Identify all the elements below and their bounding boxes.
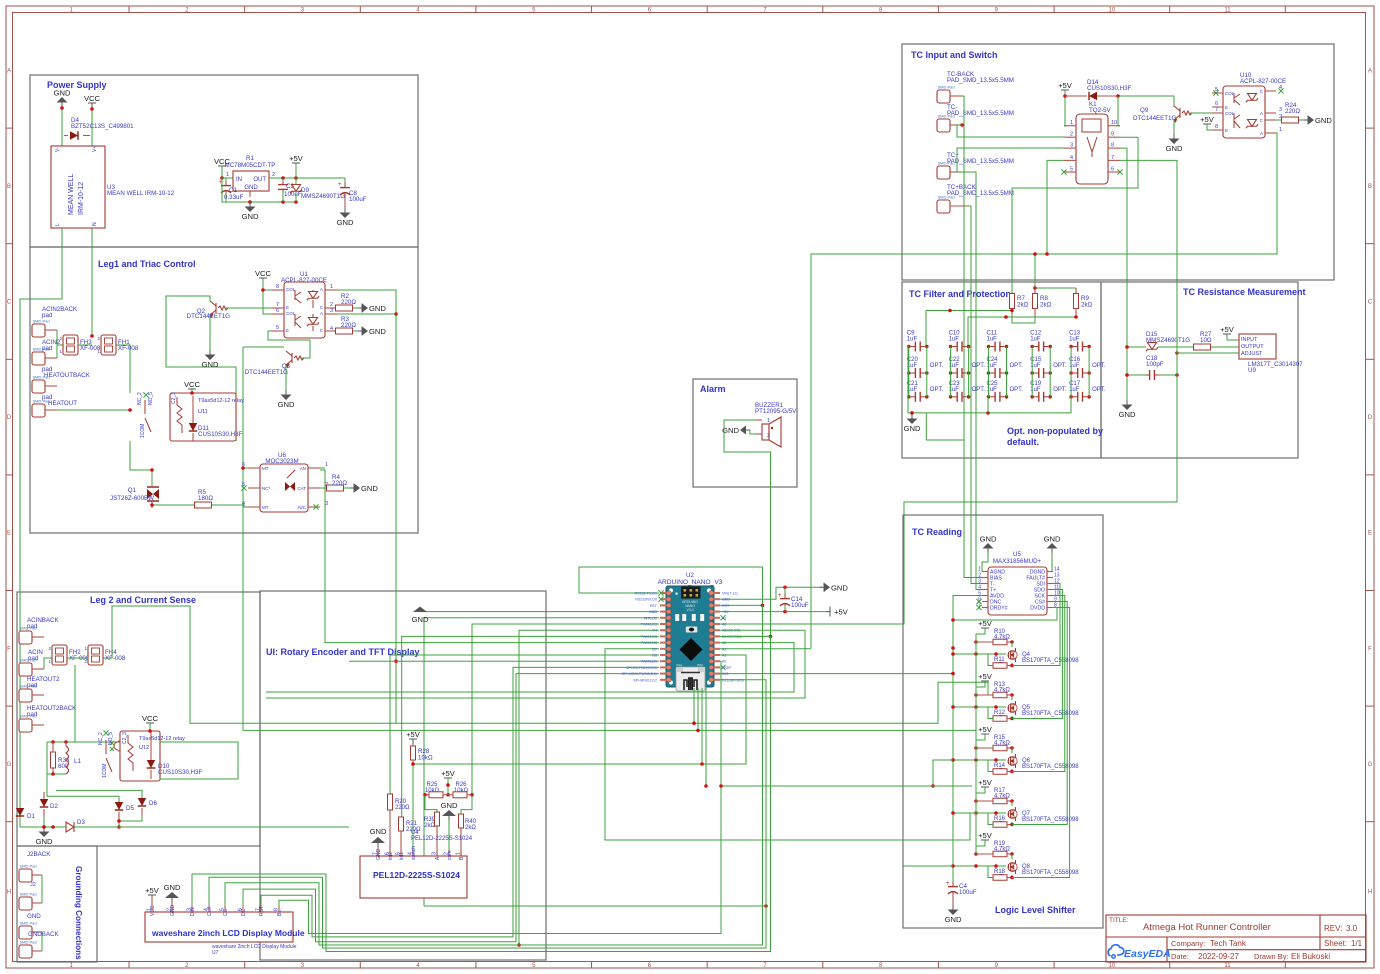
svg-text:VCC: VCC xyxy=(150,905,156,916)
svg-text:A7: A7 xyxy=(722,616,726,620)
wire shifter +5V rail xyxy=(975,634,977,854)
wire +5V to R17 xyxy=(974,787,985,803)
wire +5V to R25 R26 node xyxy=(446,778,450,797)
svg-text:7: 7 xyxy=(1215,107,1218,113)
wire Q6 source output xyxy=(1010,596,1065,774)
svg-text:BS170FTA_C558098: BS170FTA_C558098 xyxy=(1022,870,1079,876)
wire arduino ISP stubs to relay lines xyxy=(692,688,708,788)
capacitor C8 100uF xyxy=(338,178,367,208)
transistor Q9 DTC144EET1G xyxy=(1133,106,1192,122)
svg-text:IRM-10-12: IRM-10-12 xyxy=(78,182,85,215)
wire ACIN to fuse FH2 xyxy=(44,658,52,669)
power flag VCC (U1 opto) xyxy=(255,269,272,284)
power flag +5V (shifter Q5) xyxy=(978,672,993,687)
svg-text:A6: A6 xyxy=(722,623,726,627)
wire LCD signal bus xyxy=(192,605,771,951)
svg-text:PT12095-G/5V: PT12095-G/5V xyxy=(755,408,797,415)
wire current sense top rail xyxy=(47,740,154,744)
svg-text:TC Resistance Measurement: TC Resistance Measurement xyxy=(1183,287,1306,297)
svg-text:OPT.: OPT. xyxy=(972,363,986,369)
svg-text:PAD_SMD_13.5x5.5MM: PAD_SMD_13.5x5.5MM xyxy=(947,190,1014,197)
wire +5V to R15 xyxy=(974,734,985,750)
svg-text:COL: COL xyxy=(1225,91,1235,96)
svg-text:V3.0: V3.0 xyxy=(687,608,694,612)
microcontroller board U2 ARDUINO_NANO_V3 xyxy=(658,572,723,691)
wire U3 L down-left rail to Leg2 xyxy=(20,228,62,827)
pad TC- xyxy=(937,104,1014,132)
power flag +5V (LCD) xyxy=(145,886,160,912)
svg-text:+: + xyxy=(946,881,950,887)
resistor R7 2k xyxy=(1010,294,1029,316)
svg-text:+5V: +5V xyxy=(289,154,304,163)
svg-text:8: 8 xyxy=(1215,124,1218,130)
wire leg2 bottom trunk xyxy=(20,825,349,829)
wire R7 R8 bottom link xyxy=(1012,315,1035,323)
svg-text:DRDY#: DRDY# xyxy=(990,606,1008,612)
svg-text:Eli Bukoski: Eli Bukoski xyxy=(1291,952,1330,961)
svg-text:GND: GND xyxy=(54,89,71,98)
wire VCC to U1 pins 8 and 6 xyxy=(261,278,272,314)
svg-text:INPUT: INPUT xyxy=(1241,337,1258,343)
svg-text:A0: A0 xyxy=(722,660,726,664)
svg-text:A1: A1 xyxy=(722,654,726,658)
svg-text:D2: D2 xyxy=(50,803,58,810)
wire +5V to R10 xyxy=(974,628,985,644)
svg-text:D7: D7 xyxy=(652,647,657,651)
svg-text:BZT52C13S_C499801: BZT52C13S_C499801 xyxy=(71,123,134,130)
resistor R14 4.7k xyxy=(993,763,1012,775)
svg-text:1: 1 xyxy=(330,284,333,290)
wire U6 pin1 to right rail xyxy=(320,467,325,469)
wire R5 to U6 pin4 xyxy=(212,505,248,507)
wire sense brackets to D5 D6 xyxy=(47,790,142,801)
optocoupler U6 MOC3023M xyxy=(241,452,328,512)
svg-text:10: 10 xyxy=(1109,7,1116,13)
svg-text:GND: GND xyxy=(904,424,921,433)
svg-text:A3: A3 xyxy=(722,641,726,645)
wire D5 D6 to bottom rail xyxy=(117,815,142,829)
power module U3 MEAN WELL IRM-10-12 xyxy=(51,146,175,228)
resistor R28 10k xyxy=(411,744,433,764)
svg-text:R1: R1 xyxy=(246,155,254,162)
svg-text:MEAN WELL IRM-10-12: MEAN WELL IRM-10-12 xyxy=(107,190,175,197)
svg-text:OPT.: OPT. xyxy=(1053,363,1067,369)
svg-text:waveshare 2inch LCD Display Mo: waveshare 2inch LCD Display Module xyxy=(212,944,297,950)
svg-text:Leg1 and Triac Control: Leg1 and Triac Control xyxy=(98,259,196,269)
wire Q6 drain xyxy=(1011,748,1013,753)
svg-text:D1: D1 xyxy=(27,813,35,820)
svg-text:RS232-TX,D1: RS232-TX,D1 xyxy=(635,592,657,596)
svg-text:GND: GND xyxy=(649,610,657,614)
pad TC+BACK xyxy=(937,184,1014,213)
svg-text:1: 1 xyxy=(226,172,229,178)
diode D14 CUS10S30,H3F xyxy=(1065,79,1132,100)
svg-text:GND: GND xyxy=(1315,116,1332,125)
svg-text:B: B xyxy=(1368,184,1372,190)
transistor Q4 BS170FTA_C558098 xyxy=(1008,648,1079,664)
optocoupler U1 ACPL-827-00CE xyxy=(272,271,337,338)
svg-text:D3: D3 xyxy=(77,819,85,826)
wire U3 N down to FH1 xyxy=(91,228,93,336)
svg-text:1COM: 1COM xyxy=(140,424,146,438)
wire TC- to relay K1 pin2 xyxy=(957,125,1064,137)
svg-text:E: E xyxy=(1225,128,1228,133)
svg-text:1uF: 1uF xyxy=(1030,337,1041,343)
svg-text:+5V: +5V xyxy=(441,769,456,778)
inductor L1 xyxy=(66,742,81,774)
svg-text:H: H xyxy=(1368,890,1372,896)
svg-text:HEATOUT: HEATOUT xyxy=(48,400,77,407)
wire AVDD DVDD node xyxy=(951,596,1057,885)
svg-text:DTC144EET1G: DTC144EET1G xyxy=(245,369,289,376)
svg-text:SMD Pad: SMD Pad xyxy=(938,114,955,119)
pad HEATOUTBACK xyxy=(32,366,91,393)
fuse holder FH4 XF-008 xyxy=(84,645,125,665)
pad J2 xyxy=(19,892,42,911)
svg-text:V-: V- xyxy=(55,147,61,152)
ground flag (R1 GND pin) xyxy=(242,202,259,221)
svg-text:VCC: VCC xyxy=(142,714,159,723)
svg-text:1COM: 1COM xyxy=(102,764,108,778)
wire R12 to gate row xyxy=(988,707,993,719)
wire U1 pin1 to right rail xyxy=(243,290,976,734)
wire U1 pin5 to Q3 base xyxy=(268,331,310,358)
zener diode D9 MMSZ4690T1G xyxy=(290,178,345,202)
svg-text:OPT.: OPT. xyxy=(972,387,986,393)
svg-text:A: A xyxy=(320,311,323,316)
pad ACINBACK xyxy=(19,617,60,644)
logo EasyEDA xyxy=(1108,945,1171,960)
ground flag (R24) xyxy=(1304,116,1332,126)
svg-text:SMD Pad: SMD Pad xyxy=(33,347,50,352)
wire AGND to ground flag xyxy=(982,553,988,572)
resistor R26 10k xyxy=(448,782,474,798)
svg-text:Alarm: Alarm xyxy=(700,384,726,394)
svg-text:+5V: +5V xyxy=(978,725,993,734)
svg-text:CS: CS xyxy=(223,908,229,916)
wire Q5 source output xyxy=(1010,590,1062,721)
svg-text:PEL12D-2225S-S1024: PEL12D-2225S-S1024 xyxy=(411,836,473,842)
fuse holder FH3 XF-008 xyxy=(59,335,100,355)
svg-text:U11: U11 xyxy=(198,409,208,415)
svg-text:U12: U12 xyxy=(139,745,149,751)
capacitor C4 100uF xyxy=(946,881,977,905)
wire TC+BACK rail to MAX31856 T- xyxy=(968,206,982,584)
svg-text:AN: AN xyxy=(300,466,306,471)
section box Grounding Connections xyxy=(17,846,97,962)
wire +5V to D14 and K1 pin1 xyxy=(1063,90,1067,126)
capacitor C12 1uF xyxy=(1030,331,1052,352)
svg-text:OPT.: OPT. xyxy=(1010,363,1024,369)
svg-text:EasyEDA: EasyEDA xyxy=(1124,948,1171,960)
power flag +5V (R28) xyxy=(406,730,421,745)
svg-text:SMD Pad: SMD Pad xyxy=(20,714,37,719)
wire +5V to R19 xyxy=(974,840,985,856)
wire filter bottom rail to ground xyxy=(908,347,1071,415)
resistor R40 2k xyxy=(459,814,477,856)
wire D14 to K1 pin10 and Q9 xyxy=(1116,94,1174,126)
pad TC+ xyxy=(937,152,1014,179)
diode D2 xyxy=(40,792,59,817)
ground flag (R3) xyxy=(358,327,386,337)
zener diode D15 MMSZ4690T1G xyxy=(1146,331,1190,351)
svg-text:BS170FTA_C558098: BS170FTA_C558098 xyxy=(1022,764,1079,770)
svg-text:10: 10 xyxy=(1109,963,1116,969)
diode D10 CUS10S30,H3F xyxy=(147,732,203,779)
diode D5 xyxy=(115,801,135,821)
svg-text:+5V: +5V xyxy=(978,619,993,628)
wire sense node to D2 xyxy=(46,774,48,796)
svg-text:waveshare 2inch LCD Display Mo: waveshare 2inch LCD Display Module xyxy=(151,928,305,938)
svg-text:GND: GND xyxy=(1166,144,1183,153)
svg-text:MOC3023M: MOC3023M xyxy=(265,458,298,465)
wire Q9 base to U10 pin7 xyxy=(1190,112,1212,114)
svg-text:E: E xyxy=(7,531,11,537)
resistor R12 4.7k xyxy=(993,710,1012,722)
transistor Q7 BS170FTA_C558098 xyxy=(1008,807,1079,823)
wire FH3 to FH1 xyxy=(78,344,92,346)
svg-text:4: 4 xyxy=(1070,155,1073,161)
svg-text:C2_3: C2_3 xyxy=(171,392,177,404)
svg-text:ISSI: ISSI xyxy=(697,663,703,667)
ground flag (R4) xyxy=(350,484,378,494)
wire J2 pads bracket xyxy=(41,875,43,903)
capacitor C16 1uF xyxy=(1069,357,1106,378)
wire R25 to R39 xyxy=(425,795,437,812)
wire U6 pin6 to left rail xyxy=(243,467,248,469)
svg-text:RST: RST xyxy=(650,604,658,608)
section box TC Filter and Protection xyxy=(902,282,1101,458)
svg-text:GND: GND xyxy=(170,905,176,917)
svg-text:NC_2: NC_2 xyxy=(98,732,104,745)
transistor Q6 BS170FTA_C558098 xyxy=(1008,754,1079,770)
wire ACIN2 pads to fuse FH3 xyxy=(56,330,58,358)
ground flag (arduino GND) xyxy=(820,583,848,593)
wire filter top rail 2 xyxy=(968,315,1078,347)
ground flag (R2) xyxy=(358,304,386,314)
wire GND flag to U3 V- xyxy=(60,106,64,146)
relay U11 T9as5d12-12 xyxy=(137,392,244,441)
svg-text:11: 11 xyxy=(1224,7,1231,13)
transistor Q5 BS170FTA_C558098 xyxy=(1008,701,1079,717)
wire U6 pin2 to R4 xyxy=(320,487,326,489)
svg-text:GND: GND xyxy=(369,304,386,313)
svg-text:1: 1 xyxy=(325,462,328,468)
svg-text:PEL12D-2225S-S1024: PEL12D-2225S-S1024 xyxy=(373,870,460,880)
power flag +5V (K1 coil) xyxy=(1058,81,1073,96)
svg-text:MAX31856MUD+: MAX31856MUD+ xyxy=(993,558,1042,565)
section box Power Supply xyxy=(30,75,418,247)
svg-text:220Ω: 220Ω xyxy=(341,299,356,306)
transistor Q2 DTC144EET1G xyxy=(187,301,231,320)
svg-text:D: D xyxy=(1368,415,1373,421)
svg-text:6: 6 xyxy=(1111,167,1114,173)
resistor R21 220 xyxy=(399,817,422,856)
svg-text:+5V: +5V xyxy=(978,778,993,787)
fuse holder FH2 XF-008 xyxy=(48,645,89,665)
wire R14 to gate row xyxy=(988,760,993,772)
svg-text:SMD Pad: SMD Pad xyxy=(20,626,37,631)
svg-text:PAD_SMD_13.5x5.5MM: PAD_SMD_13.5x5.5MM xyxy=(947,77,1014,84)
svg-text:SMD Pad: SMD Pad xyxy=(33,375,50,380)
svg-text:+5V: +5V xyxy=(722,610,729,614)
wire FH1 to relay COM xyxy=(116,345,130,393)
wire FH4 to relay U12 xyxy=(103,606,988,723)
svg-text:4: 4 xyxy=(242,501,245,507)
pad TC-BACK xyxy=(937,71,1014,103)
svg-text:PWM3,D9: PWM3,D9 xyxy=(641,660,657,664)
svg-text:Company:: Company: xyxy=(1171,939,1205,948)
capacitor C25 1uF xyxy=(987,381,1024,402)
pad J2BACK xyxy=(19,864,42,883)
svg-text:Q9: Q9 xyxy=(1140,107,1149,114)
svg-text:MMSZ4690T1G: MMSZ4690T1G xyxy=(301,193,345,200)
fuse holder FH1 XF-008 xyxy=(97,335,138,355)
capacitor C14 100uF xyxy=(778,587,809,611)
svg-text:100pF: 100pF xyxy=(1146,361,1164,368)
svg-text:100uF: 100uF xyxy=(959,889,977,896)
svg-text:SMD Pad: SMD Pad xyxy=(20,921,37,926)
svg-text:+5V: +5V xyxy=(1058,81,1073,90)
svg-text:2: 2 xyxy=(272,172,275,178)
capacitor C24 1uF xyxy=(987,357,1024,378)
wire U10 pin1 trunk to leg2 xyxy=(811,133,1277,648)
svg-text:A: A xyxy=(320,287,323,292)
svg-text:+5V: +5V xyxy=(145,886,160,895)
pad ACIN2BACK xyxy=(32,306,78,337)
svg-text:GND: GND xyxy=(27,913,41,920)
power flag VCC (regulator R1 input) xyxy=(214,157,231,172)
svg-text:N: N xyxy=(92,222,98,226)
svg-text:2: 2 xyxy=(767,433,770,439)
svg-text:IN: IN xyxy=(236,177,242,183)
capacitor C9 1uF xyxy=(907,331,929,352)
regulator R1 MC78M05CDT-TP xyxy=(225,155,276,197)
wire VCC dot relay U12 xyxy=(148,723,152,733)
svg-text:OPT.: OPT. xyxy=(930,363,944,369)
svg-text:3: 3 xyxy=(1070,143,1073,149)
svg-text:Tech Tank: Tech Tank xyxy=(1210,939,1247,948)
svg-text:TITLE:: TITLE: xyxy=(1109,917,1129,924)
svg-text:MT: MT xyxy=(262,505,269,510)
svg-text:D4: D4 xyxy=(652,629,657,633)
svg-text:LM317T_C3014307: LM317T_C3014307 xyxy=(1248,361,1303,368)
svg-text:1uF: 1uF xyxy=(949,337,960,343)
svg-text:A: A xyxy=(1260,111,1263,116)
resistor R9 2k xyxy=(1074,288,1093,317)
svg-text:180Ω: 180Ω xyxy=(198,495,213,502)
svg-text:1: 1 xyxy=(1279,127,1282,133)
svg-text:C: C xyxy=(1368,300,1373,306)
wire Q5 drain xyxy=(1011,695,1013,700)
svg-text:Q1: Q1 xyxy=(128,487,137,494)
svg-text:kd1: kd1 xyxy=(399,852,405,860)
svg-text:3: 3 xyxy=(1279,107,1282,113)
title block xyxy=(1106,915,1366,962)
wire filter top rail 1 xyxy=(926,309,1014,347)
svg-text:A: A xyxy=(1368,68,1372,74)
capacitor C3 100nF xyxy=(278,178,302,202)
section box Leg1 and Triac Control xyxy=(30,247,418,533)
diode D1 xyxy=(16,808,36,820)
svg-text:ARDUINO_NANO_V3: ARDUINO_NANO_V3 xyxy=(658,579,723,586)
diode D3 xyxy=(66,819,85,832)
optocoupler U10 ACPL-827-00CE xyxy=(1212,72,1286,138)
resistor R16 4.7k xyxy=(993,816,1012,828)
wire R8 top rail xyxy=(1033,252,1076,290)
svg-text:J2BACK: J2BACK xyxy=(27,851,51,858)
svg-text:D8: D8 xyxy=(652,654,657,658)
svg-text:com: com xyxy=(447,851,453,860)
resistor R39 2k xyxy=(424,812,440,856)
wire Q7 source output xyxy=(1010,602,1067,827)
capacitor C20 1uF xyxy=(907,357,944,378)
svg-text:+5V: +5V xyxy=(978,672,993,681)
relay U12 T9as5d12-12 xyxy=(98,730,185,781)
no-connect marks arduino xyxy=(720,615,725,670)
resistor R17 4.7k xyxy=(976,788,1014,804)
ground flag (TC resistance rail) xyxy=(1119,400,1136,419)
wire R28 to encoder switch pin and bus xyxy=(411,762,415,856)
svg-text:BS170FTA_C558098: BS170FTA_C558098 xyxy=(1022,817,1079,823)
diode D11 CUS10S30,H3F xyxy=(189,396,243,441)
display module U7 waveshare 2inch LCD xyxy=(145,905,305,957)
svg-text:9: 9 xyxy=(1111,132,1114,138)
svg-text:11: 11 xyxy=(1224,963,1231,969)
svg-text:GND: GND xyxy=(722,598,730,602)
wire K1 pin9 to R7 top xyxy=(1012,137,1138,294)
svg-text:3: 3 xyxy=(330,308,333,314)
svg-text:TC Filter and Protection: TC Filter and Protection xyxy=(909,289,1011,299)
wire TC+ to relay K1 pin3 xyxy=(957,148,1064,172)
svg-text:AREF: AREF xyxy=(722,666,732,670)
svg-text:GND: GND xyxy=(831,583,848,592)
arduino pin labels xyxy=(622,592,745,683)
capacitor C19 1uF xyxy=(1030,381,1067,402)
wire Q1 to R5 xyxy=(152,504,194,506)
ground flag (Q3 emitter) xyxy=(278,390,295,409)
resistor R36 600 xyxy=(51,742,70,774)
svg-text:E: E xyxy=(1225,105,1228,110)
svg-text:C2_3: C2_3 xyxy=(122,732,128,744)
svg-text:SMD Pad: SMD Pad xyxy=(938,85,955,90)
svg-text:DC: DC xyxy=(241,908,247,916)
wire ADJUST to rail xyxy=(1177,353,1239,375)
section box Leg 2 and Current Sense xyxy=(17,592,260,846)
svg-text:GND: GND xyxy=(202,360,219,369)
wire FH2 FH4 interconnect xyxy=(67,657,88,659)
svg-text:OPT.: OPT. xyxy=(1092,387,1106,393)
wire K1 pin8 down to TC resistance rail xyxy=(1120,148,1127,400)
svg-text:PWM2,D6: PWM2,D6 xyxy=(641,641,657,645)
svg-text:OUT: OUT xyxy=(253,177,266,183)
svg-text:L1: L1 xyxy=(74,758,81,765)
svg-text:GND: GND xyxy=(1119,410,1136,419)
wire TC-BACK rail to MAX31856 BIAS xyxy=(960,96,982,578)
svg-text:CUS10S30,H3F: CUS10S30,H3F xyxy=(1087,85,1132,92)
section box TC Reading xyxy=(903,515,1103,928)
svg-text:A: A xyxy=(7,68,11,74)
svg-text:COL: COL xyxy=(286,311,296,316)
svg-text:VIN(7-12): VIN(7-12) xyxy=(722,592,738,596)
svg-text:U5: U5 xyxy=(1013,551,1021,558)
svg-text:J2: J2 xyxy=(30,882,36,888)
resistor R4 220 xyxy=(327,474,351,491)
wire current sense bottom rail xyxy=(47,742,66,776)
svg-text:100nF: 100nF xyxy=(284,191,302,198)
pad HEATOUT2 xyxy=(19,676,60,702)
wire GND rail under R1 xyxy=(222,178,298,204)
